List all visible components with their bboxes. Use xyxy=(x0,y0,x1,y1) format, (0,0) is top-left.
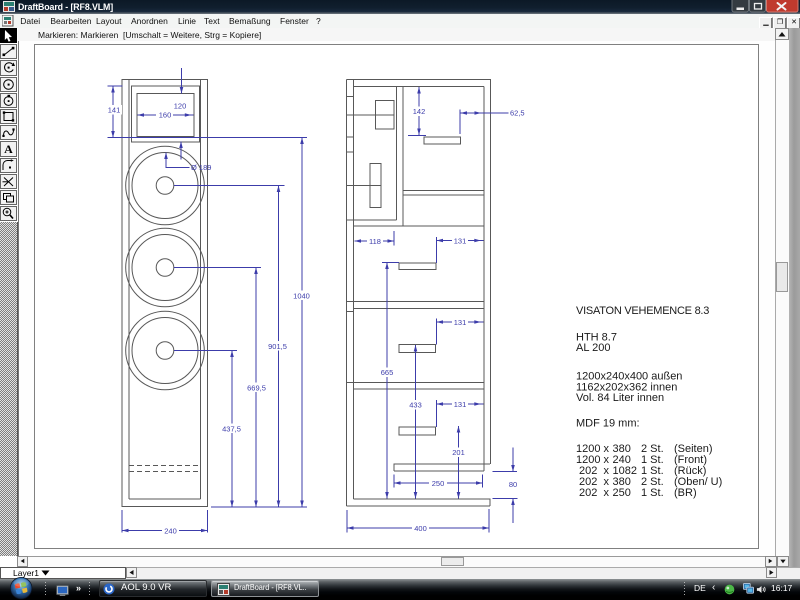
network xyxy=(743,583,754,594)
svg-text:400: 400 xyxy=(414,524,427,533)
dim 665 line xyxy=(386,263,388,499)
dim 80 lines xyxy=(493,471,518,473)
dim 62,5 lines xyxy=(459,110,461,135)
extension line woofer3 center xyxy=(174,350,237,352)
svg-text:131: 131 xyxy=(454,318,467,327)
port board P2 xyxy=(399,263,436,270)
bass reflex board (BR) xyxy=(394,464,490,471)
svg-text:141: 141 xyxy=(108,105,121,114)
woofer 1 outer rim xyxy=(126,146,205,225)
arrows 665 xyxy=(385,263,389,270)
dim 131b line xyxy=(437,321,484,323)
AOL button xyxy=(99,580,207,597)
title bar xyxy=(0,0,800,14)
extension line woofer2 center xyxy=(174,267,261,269)
woofer 3 outer rim xyxy=(126,311,205,390)
upper partial shelf bottom xyxy=(403,194,484,196)
tweeter mounting line xyxy=(347,114,395,116)
arrows 131c xyxy=(437,402,444,406)
woofer 2 outer rim xyxy=(126,228,205,307)
svg-text:80: 80 xyxy=(509,480,517,489)
DraftBoard button xyxy=(211,580,319,597)
arrows 201 xyxy=(457,426,461,433)
side view bottom board xyxy=(354,499,491,506)
side view rear wall inner edge xyxy=(483,87,485,472)
interior brace left line xyxy=(396,87,398,221)
dim 250 line xyxy=(394,482,483,484)
dim 160 line xyxy=(138,114,194,116)
arrows 131a xyxy=(437,239,444,243)
baffle cutout tick 3 xyxy=(347,151,354,153)
arrows 433 xyxy=(414,345,418,352)
svg-text:201: 201 xyxy=(452,448,465,457)
dim 131a line xyxy=(437,240,484,242)
svg-text:Ø 189: Ø 189 xyxy=(191,163,211,172)
label 1040 xyxy=(292,291,311,301)
svg-text:160: 160 xyxy=(159,110,172,119)
arrows 160 xyxy=(138,113,145,117)
svg-text:131: 131 xyxy=(454,400,467,409)
svg-text:665: 665 xyxy=(381,368,394,377)
layer row xyxy=(0,567,800,579)
dim 669,5 line xyxy=(255,268,257,508)
arrows 400 xyxy=(347,526,354,530)
svg-text:250: 250 xyxy=(613,487,631,499)
woofer 2 cutout xyxy=(132,235,198,301)
arrows 118 xyxy=(355,239,362,243)
side view front baffle inner edge xyxy=(353,80,355,500)
dim 400 lines xyxy=(346,510,348,533)
arrows 250 xyxy=(394,481,401,485)
taskbar xyxy=(0,579,800,600)
label 901,5 xyxy=(266,341,289,351)
arrows 901,5 xyxy=(277,186,281,193)
sub-enclosure shelf line xyxy=(347,219,397,221)
front view cabinet outline xyxy=(122,80,208,507)
label 250 xyxy=(429,479,447,489)
baffle cutout tick 2 xyxy=(347,136,354,138)
arrows 80 xyxy=(511,465,515,472)
side view top board inner edge xyxy=(354,86,485,88)
svg-text:1 St.: 1 St. xyxy=(641,487,664,499)
dim 120 leader lines xyxy=(181,68,183,94)
mid driver magnet box xyxy=(370,164,381,208)
arrows 120 xyxy=(180,87,184,94)
menu bar xyxy=(0,14,800,29)
svg-text:MDF 19 mm:: MDF 19 mm: xyxy=(576,418,640,430)
arrows 62,5 xyxy=(461,111,468,115)
arrows 240 xyxy=(122,529,129,533)
label 131a xyxy=(452,236,468,246)
arrows 141 xyxy=(111,86,115,93)
svg-text:901,5: 901,5 xyxy=(268,342,287,351)
label 131c xyxy=(452,400,468,410)
upper partial shelf top xyxy=(403,190,484,192)
dim 131c line xyxy=(437,403,484,405)
arrows 142 xyxy=(417,87,421,94)
scrollbars xyxy=(789,28,800,579)
tweeter magnet box xyxy=(376,101,395,130)
arrows 1040 xyxy=(300,138,304,145)
arrows 669,5 xyxy=(254,268,258,275)
dimension baseline xyxy=(211,506,307,508)
svg-text:A: A xyxy=(4,142,13,155)
dim 433 line xyxy=(415,345,417,499)
svg-text:Vol. 84 Liter innen: Vol. 84 Liter innen xyxy=(576,392,664,404)
label 141 xyxy=(106,105,122,115)
baffle cutout tick 1 xyxy=(347,96,354,98)
woofer 1 dust cap xyxy=(156,177,174,195)
horn tweeter inner opening xyxy=(137,94,194,137)
label 669,5 xyxy=(245,383,268,393)
dim 118 line xyxy=(355,240,395,242)
baffle cutout tick 4 xyxy=(347,311,354,313)
front view right wall inner edge xyxy=(200,80,202,500)
hint bar xyxy=(18,28,775,42)
tool palette xyxy=(0,28,18,556)
svg-text:669,5: 669,5 xyxy=(247,383,266,392)
mid shelf bottom xyxy=(354,308,485,310)
label 201 xyxy=(451,448,467,458)
mid driver mounting line xyxy=(347,185,382,187)
label 437,5 xyxy=(220,424,243,434)
dim 201 line xyxy=(458,426,460,499)
dim 901,5 line xyxy=(278,186,280,508)
label 131b xyxy=(452,318,468,328)
svg-text:437,5: 437,5 xyxy=(222,424,241,433)
woofer 3 cutout xyxy=(132,318,198,384)
dim 142 lines xyxy=(418,87,420,135)
shared extension line at horn bottom (for 141 and 1040) xyxy=(108,137,308,139)
arrows 131b xyxy=(437,320,444,324)
BR port hidden lines (dashed) xyxy=(129,464,201,466)
label 118 xyxy=(367,237,383,247)
svg-text:118: 118 xyxy=(369,237,381,246)
svg-text:142: 142 xyxy=(413,107,426,116)
label 80 xyxy=(507,480,519,490)
label 160 xyxy=(156,110,173,120)
svg-text:240: 240 xyxy=(164,526,177,535)
svg-text:433: 433 xyxy=(409,401,422,410)
dim 1040 line xyxy=(301,138,303,508)
svg-text:120: 120 xyxy=(174,101,187,110)
port board P1 xyxy=(424,137,461,144)
label 142 xyxy=(411,107,427,117)
svg-text:VISATON VEHEMENCE 8.3: VISATON VEHEMENCE 8.3 xyxy=(576,305,709,317)
svg-text:62,5: 62,5 xyxy=(510,109,525,118)
svg-text:(BR): (BR) xyxy=(674,487,697,499)
woofer 1 cutout xyxy=(132,153,198,219)
emule xyxy=(724,584,735,595)
horn tweeter outer frame xyxy=(132,86,200,142)
svg-text:131: 131 xyxy=(454,237,467,246)
start orb xyxy=(5,577,38,600)
port board P4 xyxy=(399,427,436,435)
arrow dia189 xyxy=(164,153,168,160)
woofer 2 dust cap xyxy=(156,259,174,277)
side view outline xyxy=(347,80,491,507)
interior brace right line xyxy=(402,87,404,227)
label 240 xyxy=(162,526,179,536)
svg-text:1040: 1040 xyxy=(293,291,310,300)
dia 189 leader xyxy=(166,153,190,168)
lower shelf top xyxy=(347,382,485,384)
dim 240 lines xyxy=(121,510,123,533)
woofer 3 dust cap xyxy=(156,342,174,360)
lower shelf bottom xyxy=(354,388,485,390)
front view bottom board xyxy=(129,498,201,500)
svg-text:250: 250 xyxy=(432,479,445,488)
front view left wall inner edge xyxy=(128,80,130,500)
label 400 xyxy=(412,524,429,534)
speaker xyxy=(756,584,767,595)
svg-text:AL 200: AL 200 xyxy=(576,342,610,354)
port board P3 xyxy=(399,345,436,353)
label 433 xyxy=(408,400,424,410)
quick launch monitor xyxy=(56,585,69,596)
dim 141 lines xyxy=(112,86,114,138)
full shelf under sub-enclosure xyxy=(354,225,485,227)
arrows 437,5 xyxy=(230,351,234,358)
dim 437,5 line xyxy=(231,351,233,508)
label 665 xyxy=(379,368,395,378)
svg-text:202: 202 xyxy=(579,487,597,499)
svg-text:x: x xyxy=(604,487,610,499)
mid shelf top xyxy=(347,301,485,303)
extension line woofer1 center xyxy=(174,185,285,187)
